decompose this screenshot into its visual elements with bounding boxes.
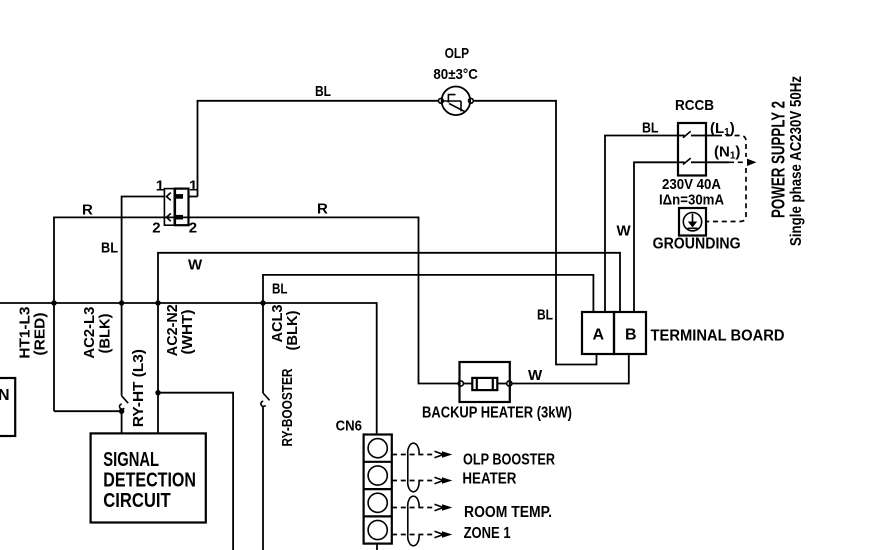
harness dashed line pin4 [392,531,452,537]
svg-text:W: W [188,257,203,274]
svg-text:RY-BOOSTER: RY-BOOSTER [279,368,296,446]
svg-text:BL: BL [537,307,553,324]
svg-text:(BLK): (BLK) [97,314,114,354]
svg-text:IΔn=30mA: IΔn=30mA [659,192,724,209]
svg-text:AC2-L3: AC2-L3 [81,307,98,359]
cable loop pins 3-4 [408,496,419,546]
cable loop pins 1-2 [408,443,419,492]
arrow to power supply [747,159,757,166]
svg-text:(RED): (RED) [32,313,49,356]
svg-text:RY-HT (L3): RY-HT (L3) [130,349,147,427]
vertical label AC2-N2 (WHT) [164,304,196,356]
main bus wire [0,303,377,435]
svg-text:(WHT): (WHT) [179,310,196,355]
wire AC2-N2 branch to bottom edge [158,393,233,550]
left edge connector box N [0,378,15,436]
wire AC2-N2 from bus down to signal box [157,303,159,433]
harness dashed line pin1 [392,451,452,457]
wire RCCB L pole down to A [605,136,678,313]
svg-text:BL: BL [272,281,288,298]
svg-text:BL: BL [642,120,659,137]
dashed lead N1 to arrow [729,161,745,163]
wire pin1 right to vertical [189,196,198,198]
svg-text:BACKUP HEATER (3kW): BACKUP HEATER (3kW) [422,405,572,422]
svg-text:W: W [528,367,543,384]
wire BL from bus to terminal A [263,275,593,312]
svg-text:W: W [617,223,632,240]
svg-text:Single phase AC230V 50Hz: Single phase AC230V 50Hz [788,76,805,246]
svg-text:1: 1 [156,178,164,195]
wire BL top from connector to OLP [198,83,439,197]
svg-text:2: 2 [152,220,160,237]
svg-text:GROUNDING: GROUNDING [653,236,741,253]
connector CN6 [336,418,392,544]
relay contact RY-BOOSTER [261,393,270,406]
wire ACL3 to bottom edge [262,406,264,550]
svg-text:R: R [317,201,328,218]
terminal board B [614,312,646,354]
svg-text:230V 40A: 230V 40A [662,176,721,193]
svg-text:(BLK): (BLK) [284,311,301,351]
wire RY-HT lower into signal box [121,408,123,433]
svg-text:(N1): (N1) [714,144,740,162]
dashed lead grounding to arrow [707,168,746,222]
svg-text:CIRCUIT: CIRCUIT [103,490,170,512]
junction dot AC2-N2 branch [155,390,160,395]
harness dashed line pin2 [392,477,452,483]
svg-text:POWER SUPPLY 2: POWER SUPPLY 2 [769,101,789,218]
vertical label ACL3 (BLK) [269,305,301,351]
harness dashed line pin3 [392,504,452,510]
wire W terminal B bottom to heater [512,354,629,384]
svg-text:BL: BL [315,83,331,100]
signal detection circuit box [91,433,206,522]
svg-text:A: A [593,327,605,344]
wire BL from OLP down to terminal A bottom [474,101,597,365]
svg-text:B: B [625,327,637,344]
svg-text:R: R [82,202,93,219]
wire RCCB N pole down to B [634,162,678,312]
svg-text:RCCB: RCCB [675,97,714,114]
svg-text:DETECTION: DETECTION [103,470,196,492]
wire ACL3 from bus down to contact [262,303,264,393]
dashed lead L1 to power supply arrow [717,136,746,158]
svg-text:OLP: OLP [445,45,470,62]
svg-text:CN6: CN6 [336,418,362,435]
svg-text:N: N [0,387,10,404]
wire RCCB N right solid stub [706,161,729,163]
vertical label HT1-L3 (RED) [17,307,49,359]
svg-text:ROOM TEMP.: ROOM TEMP. [464,504,552,521]
backup heater [422,362,572,422]
OLP thermal protector [433,45,478,115]
vertical label AC2-L3 (BLK) [81,307,114,359]
wire HT1-L3 horizontal into junction [54,410,122,412]
grounding electrode [653,208,741,253]
svg-text:2: 2 [189,220,197,237]
svg-text:TERMINAL BOARD: TERMINAL BOARD [651,328,785,345]
junction dot RY-HT [119,409,124,414]
svg-text:HEATER: HEATER [462,471,516,488]
label OLP BOOSTER HEATER [462,452,555,488]
wire R line through pin2 [54,217,458,411]
wire W from bus to terminal B [158,253,620,312]
svg-text:SIGNAL: SIGNAL [103,449,159,471]
svg-text:OLP BOOSTER: OLP BOOSTER [463,452,555,469]
junction dots on bus [51,300,56,305]
wire CN6 below connector [376,544,378,550]
terminal board A [582,312,614,354]
wire RCCB L right solid stub [706,135,717,137]
label ROOM TEMP. ZONE 1 [464,504,552,542]
svg-text:BL: BL [101,239,118,256]
wire pin1 left (BL) down [122,197,165,396]
relay contact RY-HT [119,396,128,409]
RCCB breaker [675,97,714,176]
svg-text:1: 1 [189,178,197,195]
connector 2-pin (plug pair) [164,189,188,226]
svg-text:80±3°C: 80±3°C [433,66,478,83]
svg-text:ZONE 1: ZONE 1 [464,525,511,542]
